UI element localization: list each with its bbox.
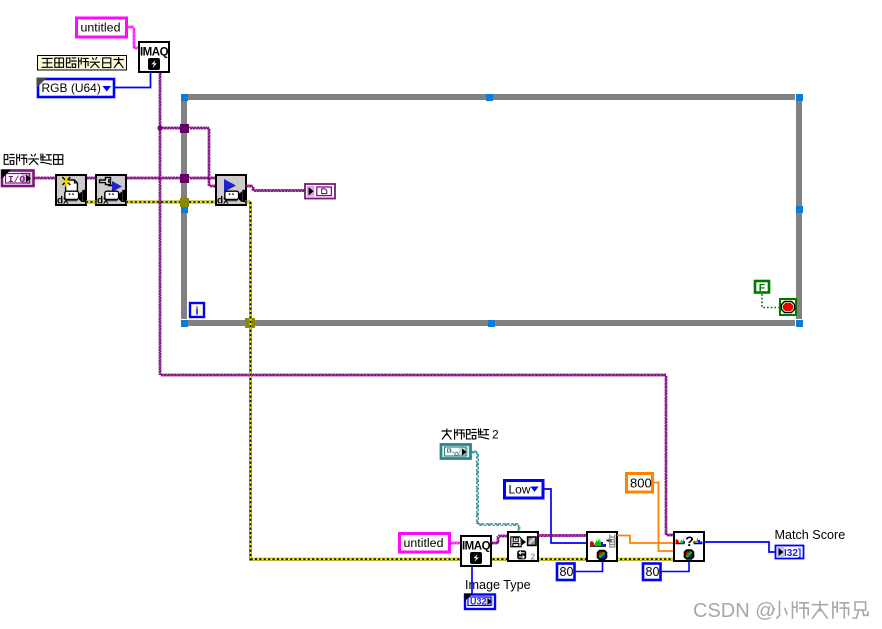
wire template Learn to Match (617, 536, 674, 544)
tunnel session (loop left) (180, 174, 189, 183)
wire path control to Read Image VI (470, 451, 520, 532)
while loop border right (796, 101, 802, 319)
svg-text:Low: Low (509, 483, 531, 497)
wire Low to Learn Pattern (543, 489, 587, 543)
image display indicator (305, 184, 335, 199)
svg-text:U32: U32 (470, 597, 487, 607)
svg-text:CSDN @: CSDN @ (693, 600, 776, 622)
path control 文件路径 2 (441, 445, 471, 459)
IMAQdx Grab VI (216, 175, 246, 207)
wire 80 to Learn Pattern (575, 561, 603, 572)
IMAQ Match Color Pattern VI (674, 532, 704, 561)
svg-text:I/O: I/O (8, 174, 25, 185)
IMAQdx Open Camera VI (56, 175, 86, 207)
svg-text:IMAQ: IMAQ (462, 541, 491, 553)
selection handle bottom-middle (488, 320, 495, 327)
svg-text:Image Type: Image Type (465, 578, 531, 592)
selection handle top-left (181, 94, 188, 101)
svg-text:I32]: I32] (784, 548, 801, 559)
wire image Grab to display indicator (245, 185, 305, 191)
numeric constant 800 (627, 474, 653, 493)
wire image long horizontal to bottom section (160, 374, 666, 376)
loop condition terminal (stop button) (780, 299, 796, 315)
selection handle top-right (796, 94, 803, 101)
string constant untitled (camera name) (77, 18, 127, 37)
svg-text:untitled: untitled (81, 21, 121, 35)
wire 800 to Match Pattern (653, 483, 674, 552)
label Match Score (775, 528, 846, 542)
numeric indicator I32 Match Score (776, 546, 804, 560)
wire session tunnel to Grab (189, 177, 216, 179)
svg-text:untitled: untitled (404, 536, 444, 550)
wire 80 to Match Pattern (661, 561, 689, 572)
iteration terminal i (190, 303, 204, 318)
wire session I/O to Open Camera (33, 177, 56, 179)
wire image into Match Pattern (666, 534, 674, 536)
wire image Read Image to Learn Pattern (537, 535, 587, 537)
tunnel image (loop left) (180, 124, 189, 133)
svg-text:800: 800 (630, 476, 652, 491)
svg-text:80: 80 (646, 565, 660, 579)
selection handle bottom-left (181, 320, 188, 327)
wire error Configure to loop tunnel (126, 201, 182, 204)
wire error tunnel to Grab (189, 201, 216, 204)
wire error Open to Configure (86, 201, 97, 204)
svg-text:2: 2 (531, 552, 536, 562)
wire image junction to loop tunnel (160, 127, 182, 129)
svg-text:i: i (195, 306, 198, 318)
label 文件路径 2 (442, 428, 499, 442)
selection handle top-middle (486, 94, 493, 101)
numeric constant 80 (second) (643, 564, 661, 581)
wire Match Score to indicator (703, 542, 775, 552)
label Image Type (465, 578, 531, 592)
label 摄像头选择 (4, 154, 63, 164)
string constant untitled 2 (400, 534, 450, 553)
wire session Open to Configure (86, 177, 97, 179)
svg-text:80: 80 (560, 565, 574, 579)
selection handle bottom-right (796, 320, 803, 327)
wire boolean F to stop terminal (762, 294, 779, 308)
while loop border top (188, 94, 795, 100)
IMAQ Create VI 2 (template image) (461, 536, 491, 566)
IMAQdx Configure Grab VI (96, 175, 126, 207)
svg-text:IMAQ: IMAQ (140, 47, 169, 59)
svg-text:?: ? (685, 533, 694, 549)
wire string untitled to IMAQ Create (126, 26, 139, 49)
watermark CSDN (693, 600, 868, 622)
selection handle middle-right (796, 206, 803, 213)
wire error Grab down to bottom tunnel and out (245, 202, 674, 561)
selection handle middle-left (181, 206, 188, 213)
tunnel error (loop left) (180, 198, 189, 207)
junction dot on image wire (157, 125, 162, 130)
while loop border bottom (188, 320, 795, 326)
svg-text:F: F (759, 282, 766, 294)
I/O control 摄像头选择 (camera session in) (2, 170, 34, 187)
enum constant RGB (U64) (37, 78, 115, 98)
tunnel error (loop bottom) (245, 318, 255, 328)
while loop border left (181, 101, 187, 319)
svg-text:2: 2 (492, 428, 499, 442)
wire image IMAQ Create down to junction and bottom section (159, 72, 161, 375)
svg-text:Match Score: Match Score (775, 528, 846, 542)
wire session Configure to loop tunnel (126, 177, 182, 179)
wire string untitled2 to IMAQ Create 2 (450, 542, 461, 544)
numeric constant 80 (first) (557, 564, 575, 581)
wire RGB enum to IMAQ Create (114, 72, 151, 88)
wire U32 to IMAQ Create 2 (471, 567, 473, 594)
enum constant Low (505, 481, 544, 499)
wire image vertical down to Match block (665, 375, 667, 535)
wire image tunnel to Grab image-in (189, 127, 216, 187)
free label 打开摄像头显示 (38, 56, 127, 71)
svg-text:RGB (U64): RGB (U64) (42, 81, 101, 95)
wire image IMAQ Create2 to Read Image (491, 535, 508, 544)
boolean constant F (755, 281, 769, 294)
IMAQ Create VI (camera image) (139, 42, 169, 72)
IMAQ Learn Color Pattern VI (587, 532, 617, 561)
numeric control U32 Image Type (465, 594, 496, 610)
IMAQ Read Image and Vision Info VI (508, 532, 538, 562)
